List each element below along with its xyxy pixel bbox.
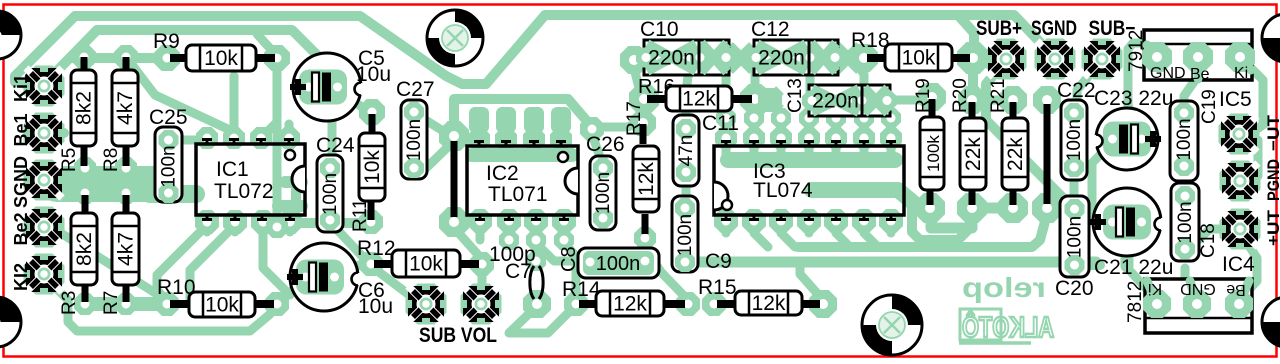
pad R20 top — [958, 86, 986, 114]
pad C7 top — [526, 251, 546, 271]
svg-text:IC5: IC5 — [1219, 88, 1252, 111]
pad R15 right — [809, 290, 837, 318]
svg-text:100n: 100n — [675, 214, 696, 256]
wire C25 to IC1 pin — [168, 136, 207, 145]
wire IC3 pin stub — [887, 118, 896, 138]
wire C23 stub — [1138, 142, 1147, 150]
connector pad +UT — [1220, 209, 1261, 250]
pad IC3 pin t — [880, 127, 902, 149]
pad IC3 top via — [854, 108, 874, 128]
wire IC3 pin stub down — [832, 221, 841, 233]
wire IC3 pin into body — [750, 138, 759, 160]
svg-text:C21 22u: C21 22u — [1094, 256, 1173, 279]
pad R14 right — [676, 292, 700, 316]
pad R7 top — [115, 182, 137, 204]
pad R7 bottom — [115, 293, 137, 315]
wire IC3 pin into body — [860, 138, 869, 160]
op-amp IC1 TL072 — [196, 140, 305, 220]
svg-text:C9: C9 — [705, 250, 732, 273]
svg-text:22k: 22k — [1004, 137, 1027, 171]
wire rail to C21 — [1074, 260, 1100, 270]
wire C27 bottom to pad — [415, 143, 452, 172]
pad X1 — [729, 46, 753, 70]
pad R3 bottom — [74, 293, 96, 315]
pad R17 bottom — [634, 227, 656, 249]
mounting hole top — [427, 10, 483, 66]
pad R9 left — [154, 45, 180, 71]
wire SUB+ to C20 — [986, 60, 1068, 203]
svg-text:R9: R9 — [153, 30, 180, 53]
wire IC3 pin stub — [860, 118, 869, 138]
op-amp IC3 TL074 — [714, 142, 904, 220]
wire inner top — [97, 30, 335, 80]
svg-text:−UT: −UT — [1264, 114, 1280, 151]
capacitor C23 22u — [1090, 108, 1161, 170]
wire C12 to C13 — [806, 58, 815, 100]
wire C21 down — [1121, 226, 1134, 266]
resistor R9 — [186, 43, 256, 73]
svg-text:8k2: 8k2 — [73, 232, 96, 266]
pad via C26 — [580, 117, 604, 141]
wire C7 top — [532, 240, 541, 258]
wire Be1 stub — [44, 128, 64, 138]
capacitor C5 10u — [290, 53, 367, 121]
connector pad SUB VOL 2 — [461, 284, 502, 325]
svg-text:TL074: TL074 — [753, 179, 813, 202]
wire R12 to SUB VOL — [478, 266, 487, 296]
pad via X — [758, 88, 782, 112]
wire R10 to C6 plus — [277, 278, 305, 304]
wire R9 right down — [273, 58, 282, 227]
wire C11 to C9 — [682, 172, 691, 208]
wire IC1 interior c — [291, 176, 301, 210]
pad IC3 pin t — [715, 127, 737, 149]
wire to R11 bottom — [277, 223, 370, 227]
wire C5 to C24 — [328, 118, 337, 165]
svg-text:C27: C27 — [396, 78, 435, 101]
wire 7812 stub Ki — [1147, 281, 1157, 304]
capacitor C19 — [1170, 101, 1198, 181]
svg-text:220n: 220n — [812, 90, 859, 113]
pad via — [554, 230, 574, 250]
wire to R14 — [564, 243, 576, 300]
wire diag — [754, 233, 768, 247]
wire diag — [781, 233, 795, 247]
svg-text:Be: Be — [1226, 281, 1246, 298]
wire IC3 interior band — [728, 152, 895, 168]
pad link2 top — [1033, 86, 1061, 114]
wire 7912 GND to C23 — [1128, 43, 1157, 134]
pad IC3 pin t — [798, 127, 820, 149]
svg-text:8k2: 8k2 — [73, 91, 96, 125]
capacitor C20 — [1060, 196, 1089, 277]
svg-text:12k: 12k — [635, 162, 658, 196]
wire C13 left stub — [808, 100, 817, 118]
wire R8 to IC1 pin — [126, 57, 232, 131]
svg-text:100n: 100n — [1175, 201, 1196, 243]
wire C19 to C18 — [1180, 166, 1189, 196]
svg-text:R21: R21 — [988, 78, 1009, 113]
capacitor C26 — [590, 156, 616, 230]
pad IC3 top via — [716, 108, 736, 128]
pad IC3 pin b — [797, 209, 821, 233]
wire SUB- to C22 — [1077, 60, 1102, 110]
wire R16 to C10 — [635, 72, 640, 92]
pad IC3 pin t — [743, 127, 765, 149]
capacitor C22 — [1061, 100, 1087, 180]
wire link W1 — [451, 141, 458, 217]
wire IC3 pin stub — [750, 118, 759, 138]
wire C12 to R16 — [751, 58, 760, 99]
regulator U 7812 — [1145, 279, 1252, 333]
wire T2 to R9 right — [257, 34, 277, 56]
svg-text:7912: 7912 — [1126, 30, 1147, 72]
svg-text:PGND: PGND — [1264, 159, 1280, 201]
pad R21 bottom — [998, 193, 1028, 223]
svg-text:Ki: Ki — [1234, 65, 1248, 82]
wire rail2 — [798, 214, 1047, 247]
corner hole bottom-right — [1262, 297, 1280, 347]
svg-text:C18: C18 — [1198, 223, 1219, 258]
resistor R15 — [735, 289, 802, 317]
pad IC1 pin b4 — [278, 210, 302, 234]
pad R3 top — [74, 182, 96, 204]
capacitor C27 — [401, 100, 427, 179]
wire C7 loop to R14 — [509, 306, 573, 333]
wire IC2 pin stub — [530, 118, 539, 138]
pad 7812 Ki — [1143, 290, 1171, 318]
resistor R5 — [71, 70, 96, 146]
svg-text:4k7: 4k7 — [115, 232, 138, 266]
svg-text:+UT: +UT — [1264, 209, 1280, 246]
svg-text:R7: R7 — [101, 291, 122, 315]
wire C23 left down — [1092, 142, 1113, 220]
pad via — [266, 216, 288, 238]
svg-text:12k: 12k — [752, 292, 786, 315]
connector pad PGND — [1220, 161, 1261, 202]
svg-text:22k: 22k — [962, 137, 985, 171]
wire Be2 diagonal — [56, 230, 160, 296]
wire IC1 interior a — [285, 176, 302, 188]
wire IC3 pin stub down — [860, 221, 869, 233]
svg-text:100k: 100k — [924, 135, 943, 172]
pad IC3 pin b — [852, 209, 876, 233]
capacitor C24 — [317, 155, 343, 232]
capacitor C25 — [155, 127, 182, 203]
pad R8 bottom — [115, 157, 137, 179]
pad X2 — [836, 46, 860, 70]
wire diag — [864, 233, 876, 245]
wire IC1 pin2 up — [230, 76, 239, 138]
op-amp IC2 TL071 — [467, 142, 578, 220]
wire R12 to SUB VOL1 — [371, 266, 418, 300]
svg-text:C11: C11 — [702, 112, 739, 135]
pad C21 right — [1132, 211, 1152, 231]
svg-text:7812: 7812 — [1125, 281, 1146, 323]
pad R9 right — [264, 45, 290, 71]
pad R12 left — [359, 252, 383, 276]
wire R20 R21 join — [978, 203, 1008, 214]
svg-text:R8: R8 — [101, 148, 122, 172]
wire C24 to R12 — [330, 222, 371, 262]
wire Be1 branch — [44, 30, 97, 86]
svg-text:R15: R15 — [698, 276, 737, 299]
pad link top — [439, 121, 469, 151]
svg-text:100n: 100n — [596, 253, 641, 275]
svg-text:220n: 220n — [648, 47, 695, 70]
pad IC3 pin b — [742, 209, 766, 233]
pad IC3 pin b — [769, 209, 793, 233]
svg-text:C20: C20 — [1055, 277, 1094, 300]
connector pad Be1 — [24, 113, 65, 154]
wire +UT to C18 — [1186, 229, 1240, 248]
pad C21 left — [1105, 211, 1125, 231]
wire C10 to C11 — [686, 60, 700, 125]
wire IC3 pin stub down — [887, 221, 896, 233]
capacitor C18 — [1171, 183, 1199, 261]
pad IC3 top via — [771, 108, 791, 128]
pad C25 bottom ext — [156, 182, 178, 204]
wire 7912 stub GND — [1147, 45, 1157, 57]
svg-text:220n: 220n — [758, 47, 805, 70]
svg-text:GND: GND — [1150, 65, 1186, 82]
wire pad to R12 right — [456, 230, 480, 257]
svg-text:C12: C12 — [751, 18, 790, 41]
wire to C8 — [536, 243, 588, 261]
pad R5 top — [72, 45, 96, 69]
wire IC2 pin stub down — [505, 221, 514, 240]
pad C23 left — [1103, 129, 1123, 149]
pad IC1 pin t4 — [278, 127, 300, 149]
wire C5 minus — [338, 90, 366, 110]
wire SGND branch — [44, 180, 60, 194]
svg-text:100n: 100n — [159, 145, 180, 187]
corner hole top-left — [0, 11, 21, 59]
connector pad Be2 — [24, 207, 65, 248]
pad R15 left — [702, 292, 726, 316]
wire IC2 interior band — [472, 148, 572, 162]
pad IC3 pin b — [714, 209, 738, 233]
pad via — [526, 230, 546, 250]
svg-text:10u: 10u — [358, 295, 393, 318]
pad IC3 pin t — [825, 127, 847, 149]
connector pad KI2 — [24, 254, 65, 295]
svg-text:C26: C26 — [586, 133, 625, 156]
svg-text:TL072: TL072 — [214, 180, 274, 203]
wire 7812 stub GND — [1190, 281, 1197, 304]
svg-text:100n: 100n — [1064, 119, 1085, 161]
pad R5 bottom — [74, 157, 96, 179]
wire link W2 — [1044, 104, 1051, 204]
svg-text:100n: 100n — [320, 173, 341, 215]
resistor R8 — [112, 70, 138, 146]
svg-text:SUB VOL: SUB VOL — [419, 324, 497, 347]
svg-text:relop: relop — [962, 272, 1046, 303]
wire IC3 pin stub — [777, 118, 786, 138]
wire 7912 Ki to -UT — [1240, 57, 1263, 133]
wire 7912 stub Be — [1194, 57, 1203, 79]
pad IC1 pin b1 — [195, 210, 219, 234]
svg-text:C23 22u: C23 22u — [1094, 87, 1173, 110]
svg-text:100n: 100n — [1174, 118, 1195, 160]
pad IC3 pin t — [853, 127, 875, 149]
wire IC2 bracket — [454, 99, 592, 128]
wire IC3 pin into body — [832, 138, 841, 160]
wire R14 to R17 — [645, 242, 688, 300]
svg-text:12k: 12k — [613, 293, 647, 316]
wire C10 to IC3 — [722, 58, 731, 118]
wire IC3 pin into body — [805, 138, 814, 160]
pad IC2 pin b1 — [468, 209, 492, 233]
svg-text:R12: R12 — [357, 237, 396, 260]
connector pad SUB VOL 1 — [406, 284, 447, 325]
wire IC3 pin stub down — [777, 221, 786, 233]
wire R16 to IC3 pin — [751, 99, 760, 118]
wire outer U — [912, 204, 968, 240]
wire IC3 interior band2 — [812, 190, 916, 205]
pad 7912 GND — [1142, 42, 1172, 72]
pad C7 bottom — [523, 290, 551, 318]
pad C5 minus — [359, 99, 385, 125]
capacitor C9 — [672, 196, 698, 272]
pad IC3 pin b — [879, 209, 903, 233]
wire R16 to R17 — [640, 99, 649, 122]
wire IC1 pin stub — [231, 221, 240, 232]
wire SGND fat rail — [150, 185, 196, 203]
pad 7812 GND — [1183, 290, 1211, 318]
svg-text:IC4: IC4 — [1222, 253, 1255, 276]
wire IC2 pin stub — [502, 118, 511, 138]
connector pad SUB+ — [986, 39, 1027, 80]
pad R17 top — [630, 110, 656, 136]
pad IC1 pin b3 — [251, 210, 275, 234]
pad R10 left — [155, 292, 179, 316]
wire IC1 pin2 down — [190, 225, 235, 300]
wire KI2 bottom rail — [44, 276, 277, 331]
pad R10 right — [265, 292, 289, 316]
pad IC3 top via — [881, 108, 901, 128]
wire C6 to R12 — [340, 264, 369, 277]
wire SGND fat slab — [57, 166, 158, 202]
svg-text:12k: 12k — [682, 88, 716, 111]
svg-text:100n: 100n — [593, 172, 614, 214]
wire IC1 pin4 stub — [285, 124, 294, 138]
svg-text:IC1: IC1 — [216, 158, 249, 181]
svg-text:47n: 47n — [676, 135, 697, 167]
wire 7812 Be to +UT — [1239, 232, 1257, 300]
svg-text:R20: R20 — [950, 78, 971, 113]
wire IC1 pin stub — [258, 221, 267, 232]
svg-text:TL071: TL071 — [488, 183, 548, 206]
svg-text:GND: GND — [1180, 280, 1216, 297]
capacitor C21 22u — [1090, 188, 1167, 256]
svg-text:C10: C10 — [640, 18, 679, 41]
pad R19 bottom — [915, 193, 945, 223]
wire C13 to R19 — [890, 96, 926, 105]
wire 7912 Be to C19 — [1184, 57, 1198, 112]
wire IC2 pin stub down — [476, 221, 485, 240]
pad R16 left — [629, 84, 659, 114]
wire C27 to pad — [413, 112, 452, 135]
pad link bottom — [439, 207, 469, 237]
pad C10 feed — [620, 46, 648, 74]
wire C13 mid stub — [858, 100, 867, 118]
svg-text:100n: 100n — [1065, 216, 1086, 258]
pad IC3 pin t — [770, 127, 792, 149]
connector pad SGND left — [24, 160, 65, 201]
capacitor C10 — [636, 40, 736, 75]
pad IC1 pin t3 — [250, 127, 272, 149]
pad IC1 pin t2 — [223, 127, 245, 149]
wire branch to R18 pad — [958, 15, 974, 55]
wire IC1 pin to R10 — [157, 225, 207, 300]
wire IC3 pin into body — [722, 138, 731, 160]
wire 7912 stub Ki — [1240, 57, 1251, 70]
wire C5 plus stub — [303, 90, 312, 100]
wire IC1 pin3 — [261, 122, 277, 138]
wire to Ki1 — [15, 16, 75, 86]
pad R19 top — [918, 83, 946, 111]
wire 7812 GND diag — [1185, 268, 1197, 300]
pad IC1 pin b2 — [223, 210, 247, 234]
svg-text:R11: R11 — [350, 199, 371, 232]
capacitor C12 — [746, 40, 845, 75]
pad IC2 pin b3 — [524, 209, 548, 233]
wire U R19 R20 — [931, 208, 972, 228]
resistor R14 — [596, 289, 664, 318]
svg-text:C19: C19 — [1199, 89, 1220, 124]
wire IC3 pin stub down — [722, 221, 731, 233]
pad R14 left — [564, 292, 588, 316]
pad IC3 top via — [744, 108, 764, 128]
pad R21 top — [999, 86, 1027, 114]
wire IC2 pin stub — [557, 118, 566, 138]
mounting hole bottom — [862, 295, 922, 355]
pad C23 right — [1130, 129, 1150, 149]
capacitor C6 10u — [287, 243, 364, 311]
wire C12 right — [838, 58, 864, 118]
wire IC2 pin stub down — [532, 221, 541, 240]
resistor R17 — [633, 146, 659, 212]
svg-text:Be1: Be1 — [11, 113, 31, 146]
corner hole top-right — [1262, 14, 1280, 62]
pad R12 right — [470, 252, 494, 276]
pad 7812 Be — [1225, 290, 1253, 318]
svg-text:C7: C7 — [505, 260, 532, 283]
wire IC3 pin into body — [777, 138, 786, 160]
resistor R10 — [189, 290, 255, 319]
wire R20 R21 top — [975, 96, 1010, 105]
svg-text:R5: R5 — [59, 148, 80, 172]
resistor R18 — [885, 42, 952, 73]
wire IC1 pin stub — [286, 221, 295, 232]
resistor R19 — [920, 117, 944, 190]
svg-text:R3: R3 — [59, 291, 80, 315]
svg-text:10k: 10k — [361, 150, 384, 184]
wire IC1 interior b — [278, 200, 302, 212]
svg-text:IC2: IC2 — [486, 162, 519, 185]
svg-text:Be: Be — [1190, 66, 1210, 83]
wire diag — [836, 233, 850, 247]
wire bottom rail long — [686, 257, 1096, 268]
connector pad SGND top — [1035, 39, 1076, 80]
svg-text:10k: 10k — [902, 47, 936, 70]
resistor R20 — [960, 118, 986, 190]
pad IC2 pin b2 — [497, 209, 521, 233]
capacitor C13 — [802, 85, 897, 116]
pad R20 bottom — [957, 193, 987, 223]
wire IC3 pin stub down — [750, 221, 759, 233]
